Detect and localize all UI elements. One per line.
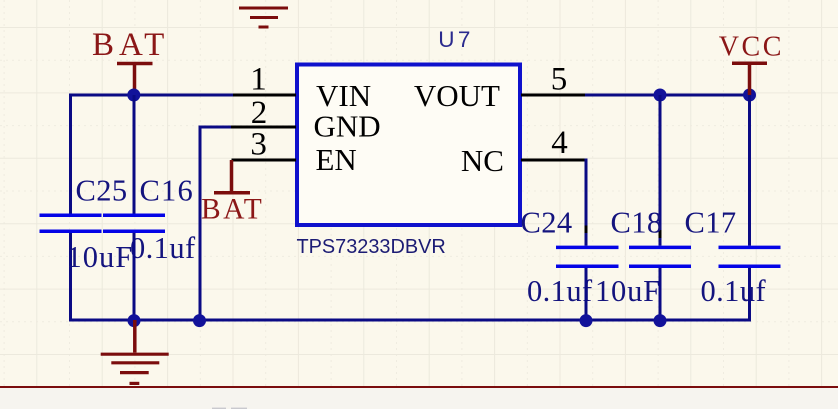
wire C24 bottom lead: [585, 268, 588, 320]
value 10uF: [67, 240, 134, 274]
junction node C18: [654, 314, 667, 327]
wire C25 branch vertical: [69, 94, 72, 322]
wire C17 top lead: [748, 95, 751, 246]
value 0.1uf: [130, 231, 196, 265]
junction node C16/ground: [128, 314, 141, 327]
designator C17: [685, 205, 737, 239]
pin tick C24: [585, 226, 588, 234]
wire C17 bottom lead: [748, 268, 751, 322]
svg-text:0.1uf: 0.1uf: [701, 274, 767, 308]
designator U7: [438, 27, 474, 52]
designator C18: [611, 205, 663, 239]
svg-text:BAT: BAT: [201, 193, 264, 225]
svg-text:BAT: BAT: [92, 27, 169, 63]
svg-text:5: 5: [551, 61, 568, 97]
svg-text:0.1uf: 0.1uf: [527, 274, 593, 308]
capacitor C17 plates: [719, 247, 781, 266]
svg-text:0.1uf: 0.1uf: [130, 231, 196, 265]
pin name VIN: [316, 78, 371, 113]
pin name NC: [461, 143, 504, 178]
svg-text:U7: U7: [438, 27, 474, 52]
svg-text:C25: C25: [76, 174, 128, 208]
svg-text:C18: C18: [611, 205, 663, 239]
svg-text:VOUT: VOUT: [414, 78, 500, 113]
power port VCC: [719, 32, 784, 95]
pin name EN: [316, 142, 357, 177]
svg-text:TPS73233DBVR: TPS73233DBVR: [297, 236, 446, 258]
wire NC pin down to C24: [585, 159, 588, 246]
svg-text:C16: C16: [140, 174, 194, 208]
capacitor C25 plates: [40, 215, 102, 231]
svg-text:VCC: VCC: [719, 32, 784, 63]
junction node VCC/C17: [743, 89, 756, 102]
svg-text:EN: EN: [316, 142, 357, 177]
pin 3 (EN): [232, 127, 297, 163]
capacitor C16 plates: [103, 215, 165, 231]
op-amp/regulator U7 body: [297, 65, 520, 226]
svg-text:3: 3: [250, 127, 267, 163]
pin 1 (VIN): [232, 61, 297, 97]
junction node VOUT/C18: [654, 89, 667, 102]
junction node BAT/VIN: [127, 89, 140, 102]
wire ground bus: [69, 319, 751, 322]
junction node GND wire: [193, 314, 206, 327]
wire VIN net horizontal: [69, 94, 233, 97]
svg-text:4: 4: [551, 125, 568, 161]
capacitor C18 plates: [629, 247, 691, 266]
pin 2 (GND): [230, 95, 296, 131]
power port BAT (top): [92, 27, 169, 95]
pin name GND: [314, 108, 381, 143]
value TPS73233DBVR: [297, 236, 446, 258]
ground (top, clipped): [239, 8, 288, 27]
value 0.1uf (C24): [527, 274, 593, 308]
svg-text:C17: C17: [685, 205, 737, 239]
ground (bottom): [101, 320, 169, 383]
svg-text:1: 1: [250, 61, 267, 97]
junction node C24: [580, 314, 593, 327]
svg-text:10uF: 10uF: [595, 274, 661, 308]
svg-text:10uF: 10uF: [67, 240, 134, 274]
designator C24: [521, 206, 573, 240]
value 0.1uf (C17): [701, 274, 767, 308]
pin name VOUT: [414, 78, 500, 113]
pin 5 (VOUT): [521, 61, 585, 97]
pin 4 (NC): [521, 125, 588, 161]
wire C18 bottom lead: [659, 268, 662, 320]
designator C25: [76, 174, 128, 208]
power port BAT (EN pin): [201, 160, 264, 225]
wire VOUT net horizontal: [585, 94, 750, 97]
value 10uF (C18): [595, 274, 661, 308]
svg-text:GND: GND: [314, 108, 381, 143]
wire C18 top lead: [659, 95, 662, 246]
designator C16: [140, 174, 194, 208]
svg-text:NC: NC: [461, 143, 504, 178]
wire C16 top lead: [133, 95, 136, 214]
pin tick C18: [659, 230, 662, 238]
wire C16 bottom lead: [133, 233, 136, 320]
wire GND pin to bus: [199, 126, 232, 321]
svg-text:C24: C24: [521, 206, 573, 240]
capacitor C24 plates: [556, 247, 619, 266]
